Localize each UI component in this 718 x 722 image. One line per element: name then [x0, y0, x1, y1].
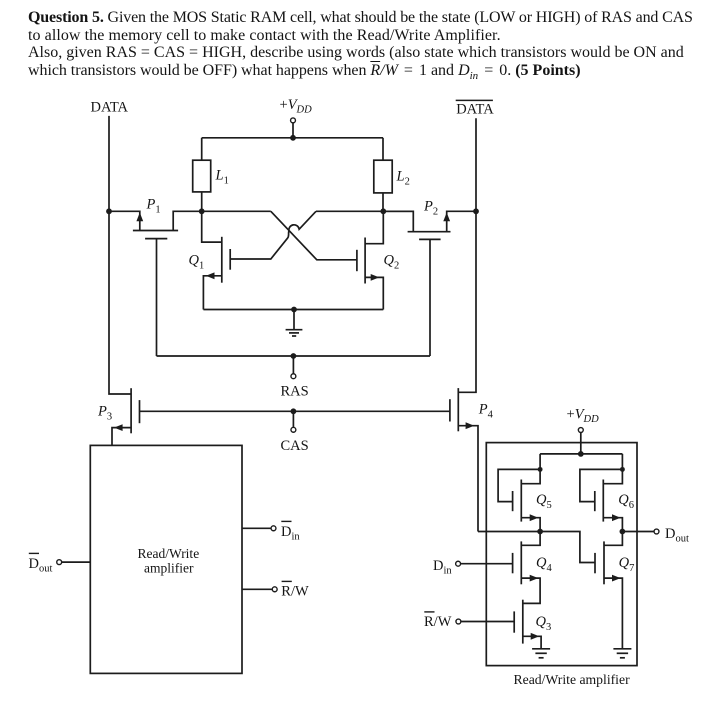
svg-text:Q3: Q3	[536, 614, 552, 633]
svg-text:Q5: Q5	[536, 492, 552, 511]
svg-text:RAS: RAS	[281, 384, 309, 400]
svg-text:L1: L1	[215, 168, 229, 187]
svg-text:Din: Din	[433, 558, 452, 577]
svg-text:Dout: Dout	[29, 556, 53, 575]
svg-text:P4: P4	[478, 402, 494, 421]
svg-text:Dout: Dout	[665, 526, 689, 545]
svg-text:+VDD: +VDD	[280, 97, 313, 116]
svg-text:amplifier: amplifier	[144, 561, 194, 576]
svg-text:R/W: R/W	[424, 614, 452, 630]
svg-text:Q2: Q2	[384, 253, 400, 272]
svg-text:DATA: DATA	[91, 100, 129, 116]
svg-text:DATA: DATA	[456, 102, 494, 118]
svg-text:L2: L2	[396, 169, 410, 188]
svg-text:Q6: Q6	[618, 492, 634, 511]
svg-text:P2: P2	[423, 199, 438, 218]
svg-text:Read/Write: Read/Write	[138, 546, 200, 561]
svg-text:Q4: Q4	[536, 555, 552, 574]
svg-text:Read/Write amplifier: Read/Write amplifier	[514, 672, 631, 687]
svg-text:Q1: Q1	[189, 253, 205, 272]
svg-text:Q7: Q7	[619, 555, 635, 574]
svg-text:CAS: CAS	[281, 438, 309, 454]
svg-text:P3: P3	[97, 404, 112, 423]
svg-text:+VDD: +VDD	[567, 407, 600, 426]
svg-text:P1: P1	[146, 197, 161, 216]
svg-text:Din: Din	[281, 524, 300, 543]
svg-text:R/W: R/W	[281, 584, 309, 600]
